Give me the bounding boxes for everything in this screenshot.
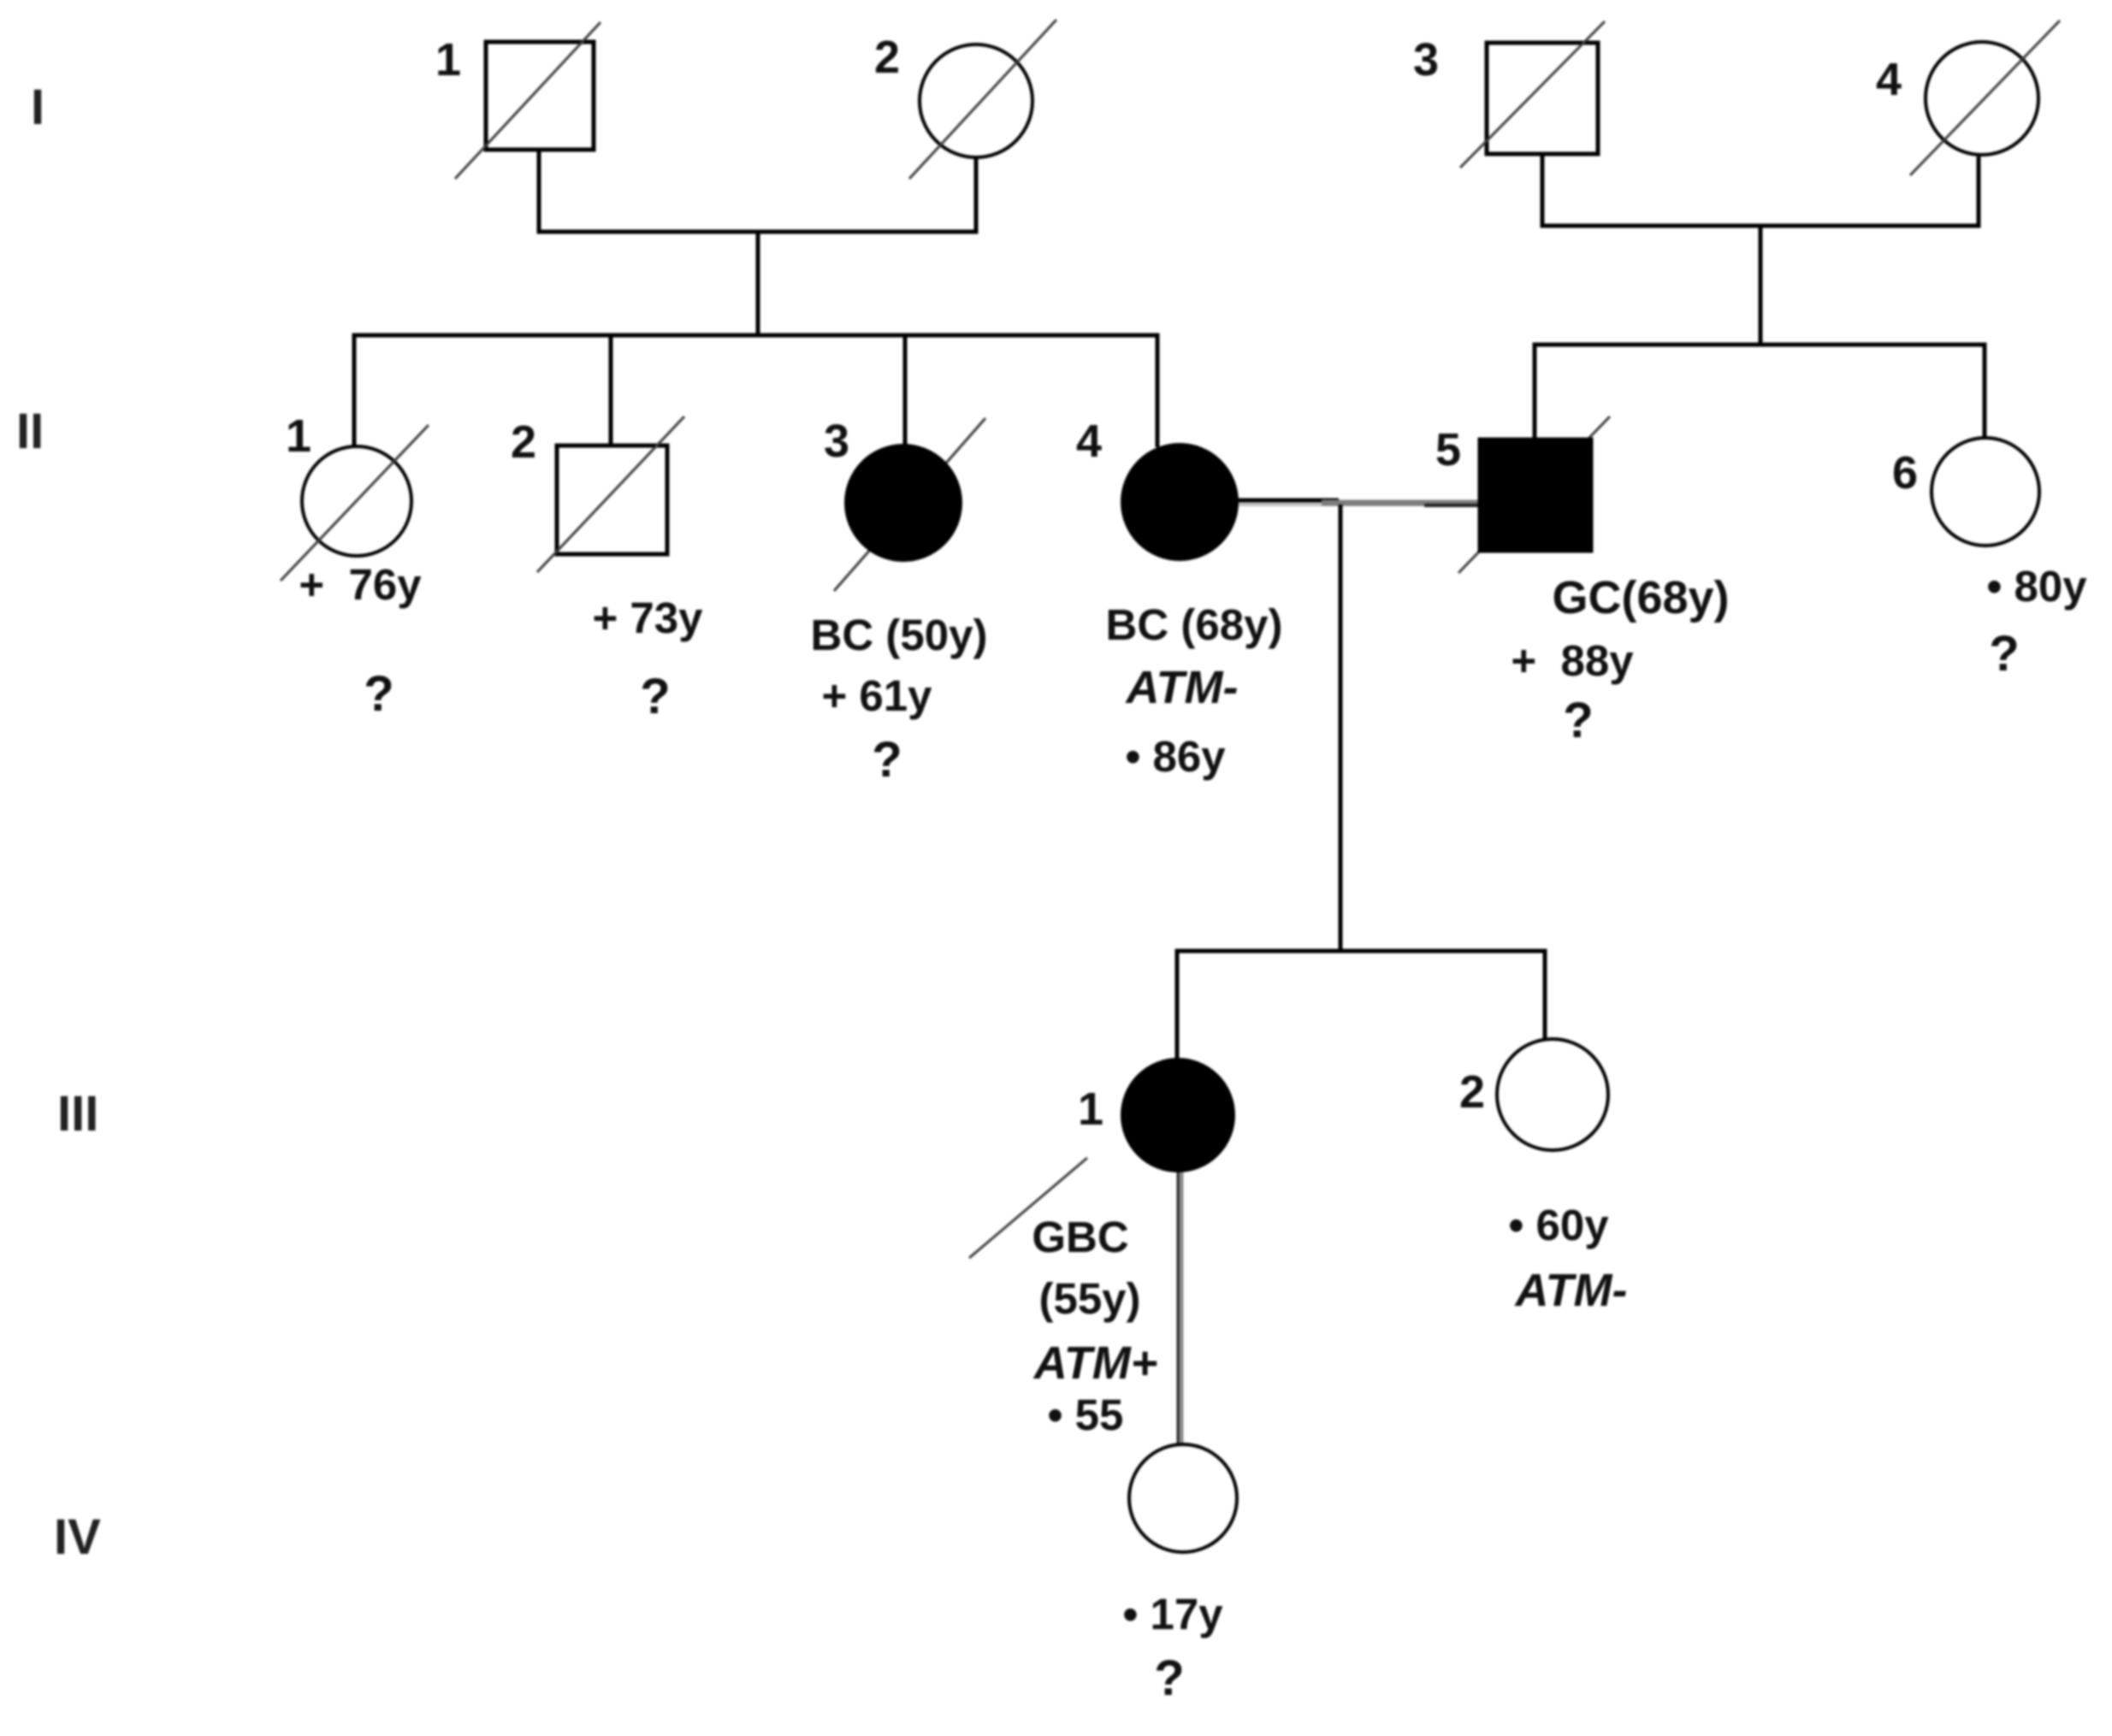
svg-text:1: 1 xyxy=(286,410,311,462)
svg-text:(55y): (55y) xyxy=(1038,1274,1140,1323)
wire drop to III-2 xyxy=(1543,951,1547,1040)
slash III-1 xyxy=(969,1158,1087,1258)
wire drop to II-4 xyxy=(1156,335,1160,447)
svg-text:BC (68y): BC (68y) xyxy=(1106,600,1283,649)
svg-text:IV: IV xyxy=(54,1509,101,1565)
wire sibling line generation III xyxy=(1175,949,1547,954)
wire drop to III-1 xyxy=(1175,951,1180,1061)
slash II-2 xyxy=(537,416,684,572)
wire III-1 to IV-1 dark edge xyxy=(1177,1170,1180,1445)
individual I-4 deceased female circle xyxy=(1926,42,2038,155)
wire marriage line II-4 II-5 grey part xyxy=(1322,500,1481,506)
svg-text:1: 1 xyxy=(1078,1084,1103,1135)
svg-text:GC(68y): GC(68y) xyxy=(1552,572,1729,623)
svg-text:?: ? xyxy=(872,732,902,788)
individual II-3 affected deceased female filled circle xyxy=(846,446,961,560)
svg-text:3: 3 xyxy=(824,416,849,467)
individual I-2 deceased female circle xyxy=(920,44,1032,157)
svg-text:ATM-: ATM- xyxy=(1514,1265,1628,1316)
wire I-3 to marriage line xyxy=(1541,154,1545,227)
svg-text:3: 3 xyxy=(1413,34,1439,86)
slash I-4 xyxy=(1910,21,2060,175)
wire III-1 to IV-1 grey part xyxy=(1180,1170,1184,1445)
svg-text:?: ? xyxy=(1989,626,2019,682)
slash I-1 xyxy=(455,22,600,179)
svg-text:?: ? xyxy=(640,669,670,724)
individual III-2 female circle xyxy=(1497,1039,1608,1150)
individual III-1 affected deceased female filled circle xyxy=(1122,1060,1233,1171)
svg-text:BC (50y): BC (50y) xyxy=(811,611,988,659)
individual II-5 affected deceased male filled square xyxy=(1480,440,1591,551)
wire I-1 to marriage line xyxy=(537,150,541,233)
wire drop to II-3 xyxy=(903,335,908,448)
wire marriage line II-4 II-5 dark right part xyxy=(1424,504,1481,507)
wire sibling line right family xyxy=(1533,343,1987,347)
svg-text:2: 2 xyxy=(874,32,900,83)
svg-text:III: III xyxy=(57,1086,98,1142)
svg-text:• 80y: • 80y xyxy=(1986,562,2087,611)
svg-text:I: I xyxy=(31,80,44,135)
svg-text:II: II xyxy=(16,404,44,459)
wire descent from couple II-4/II-5 xyxy=(1339,505,1343,953)
individual I-1 deceased male square xyxy=(486,42,594,150)
svg-text:• 17y: • 17y xyxy=(1122,1590,1223,1639)
wire drop to II-1 xyxy=(352,335,357,447)
slash II-3 xyxy=(834,418,985,591)
svg-text:ATM+: ATM+ xyxy=(1032,1337,1158,1389)
individual I-3 deceased male square xyxy=(1487,43,1598,154)
slash II-5 xyxy=(1458,416,1610,573)
svg-text:1: 1 xyxy=(435,34,461,86)
individual IV-1 female circle xyxy=(1129,1444,1237,1552)
individual II-4 affected female filled circle xyxy=(1122,445,1237,559)
individual II-6 female circle xyxy=(1932,438,2039,546)
wire marriage line II-4 II-5 light underlay xyxy=(1223,503,1481,506)
svg-text:+ 76y: + 76y xyxy=(299,560,422,609)
wire I-4 to marriage line xyxy=(1977,156,1981,227)
wire descent from couple I-1/I-2 xyxy=(756,232,760,337)
svg-text:+ 73y: + 73y xyxy=(592,593,703,642)
svg-text:+ 61y: + 61y xyxy=(821,671,932,720)
svg-text:• 60y: • 60y xyxy=(1508,1201,1609,1249)
svg-text:2: 2 xyxy=(1459,1066,1485,1118)
wire drop to II-5 xyxy=(1533,345,1537,441)
wire marriage line I-3 I-4 xyxy=(1541,224,1981,228)
svg-text:GBC: GBC xyxy=(1032,1213,1128,1261)
wire marriage line I-1 I-2 xyxy=(537,230,979,234)
svg-text:• 55: • 55 xyxy=(1048,1391,1124,1439)
svg-text:5: 5 xyxy=(1435,424,1461,475)
wire sibling line left family xyxy=(352,334,1160,338)
svg-text:6: 6 xyxy=(1892,447,1918,499)
svg-text:?: ? xyxy=(1563,693,1593,748)
svg-text:• 86y: • 86y xyxy=(1125,732,1226,781)
individual II-2 deceased male square xyxy=(557,446,667,554)
wire marriage line II-4 II-5 black part xyxy=(1219,499,1339,503)
individual II-1 deceased female circle xyxy=(302,446,411,556)
wire drop to II-2 xyxy=(609,335,613,446)
svg-text:?: ? xyxy=(364,666,393,722)
wire descent from couple I-3/I-4 xyxy=(1759,226,1763,346)
slash I-3 xyxy=(1460,21,1605,168)
svg-text:4: 4 xyxy=(1876,54,1902,105)
slash II-1 xyxy=(281,425,429,581)
slash I-2 xyxy=(909,20,1056,179)
svg-text:+ 88y: + 88y xyxy=(1511,636,1634,685)
svg-text:ATM-: ATM- xyxy=(1125,662,1239,713)
wire I-2 to marriage line xyxy=(974,157,979,233)
svg-text:?: ? xyxy=(1154,1650,1184,1706)
svg-text:4: 4 xyxy=(1076,416,1102,467)
wire drop to II-6 xyxy=(1983,345,1987,439)
svg-text:2: 2 xyxy=(511,416,536,468)
